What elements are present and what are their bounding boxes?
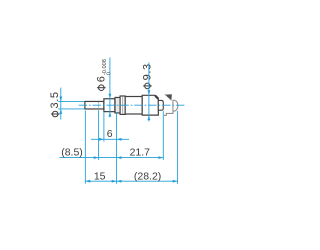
rear cap phi9.3 <box>142 95 158 115</box>
extension line at rod tip x85.35 <box>84 111 86 184</box>
dim 8.5 and 21.7 row <box>60 147 164 159</box>
svg-text:6: 6 <box>95 75 107 82</box>
extension line at cable end x177.6 <box>177 111 179 184</box>
stem phi6 <box>104 99 115 112</box>
wire centerline <box>79 104 185 106</box>
spindle rod phi3.5 <box>85 101 104 109</box>
svg-text:0: 0 <box>106 72 112 75</box>
cable wedge (phantom) <box>165 94 172 100</box>
dim phi3.5 label <box>49 91 61 116</box>
dim 6 row <box>91 128 129 141</box>
ring nut seam <box>122 97 124 114</box>
ring collar <box>115 97 120 113</box>
dim phi9.3 arrows <box>148 90 151 95</box>
connector plug (phantom) <box>173 100 178 111</box>
barrel body <box>125 97 142 115</box>
svg-text:3.5: 3.5 <box>49 91 61 108</box>
rear cap chamfer shade <box>155 96 158 99</box>
svg-text:(28.2): (28.2) <box>134 170 161 182</box>
extension line at rod seam x98.6 <box>98 110 100 160</box>
dim phi6 lines <box>109 58 111 118</box>
extension line at rod end x103.9 <box>103 113 105 142</box>
dim phi6 arrows <box>109 94 112 99</box>
svg-text:6: 6 <box>107 128 113 140</box>
dim 15 and 28.2 row <box>85 170 177 182</box>
dim phi9.3 label <box>141 63 153 88</box>
nose bushing <box>158 100 163 110</box>
svg-text:9.3: 9.3 <box>141 63 153 80</box>
cable hook (phantom) <box>164 111 173 115</box>
svg-text:21.7: 21.7 <box>130 147 151 159</box>
dim phi9.3 lines <box>148 63 150 122</box>
dim phi3.5 lines <box>58 88 84 120</box>
svg-text:15: 15 <box>94 170 106 182</box>
svg-text:(8.5): (8.5) <box>61 147 83 159</box>
dim phi6 label <box>95 59 112 90</box>
ring nut <box>120 96 125 114</box>
extension line at body rear x163.3 <box>162 111 164 160</box>
dim phi3.5 arrows <box>59 97 62 102</box>
extension line at body face x116.6 <box>116 113 118 184</box>
